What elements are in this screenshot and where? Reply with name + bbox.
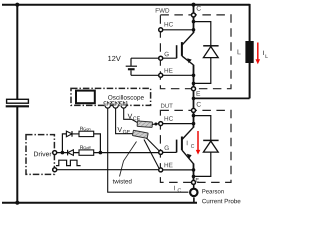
wire battery to HE FWD <box>131 74 159 76</box>
wire right bus upper <box>249 4 251 41</box>
FWD module box <box>160 15 231 89</box>
IGBT DUT <box>163 127 194 164</box>
current arrow IC DUT <box>196 131 201 155</box>
wire right bus lower <box>249 63 251 99</box>
junction top-center <box>191 3 195 7</box>
label HE DUT <box>165 163 173 167</box>
capacitor DC-link <box>6 99 29 106</box>
twisted probe VGE <box>132 130 148 138</box>
junction FWD HE tap <box>192 74 196 78</box>
battery 12V <box>126 58 137 75</box>
driver box <box>26 135 54 175</box>
wire FWD emitter chain <box>193 65 195 87</box>
label Driver <box>34 151 51 156</box>
label E FWD <box>197 91 201 96</box>
label G DUT <box>165 146 169 151</box>
wire Ch3 to VGE probe <box>116 108 134 134</box>
label HC DUT <box>165 116 173 121</box>
node G FWD <box>159 56 163 60</box>
wire VGE probe to HE <box>144 140 159 169</box>
node HC FWD <box>159 28 163 32</box>
junction gate branch left <box>61 151 65 155</box>
wire battery to G FWD <box>131 57 159 59</box>
connector bump Ch1 <box>121 105 126 108</box>
wire HE DUT to emitter <box>163 169 194 171</box>
label DUT <box>161 104 173 108</box>
label HC FWD <box>165 22 173 27</box>
wire Pearson to bottom bus <box>193 198 195 204</box>
wire Ch2 to Pearson <box>108 108 189 192</box>
junction FWD diode tap <box>192 20 196 24</box>
terminal driver gate <box>53 151 57 155</box>
node E FWD <box>192 87 196 91</box>
junction DUT HC tap <box>192 122 196 126</box>
label IC DUT <box>187 141 194 148</box>
wire top DC bus <box>2 4 250 6</box>
node HE DUT <box>159 168 163 172</box>
wire FWD collector segment <box>193 17 195 33</box>
node C DUT <box>192 108 196 112</box>
oscilloscope box <box>71 88 151 105</box>
wire driver gate output <box>57 152 159 154</box>
label C FWD <box>197 6 201 11</box>
wire left DC bus upper <box>16 5 18 100</box>
label 12V <box>108 56 121 61</box>
wire load return <box>194 97 250 99</box>
diode gate-off <box>68 150 74 156</box>
junction bottom-left <box>15 201 19 205</box>
label Ch2 <box>104 101 112 104</box>
node C FWD <box>192 13 196 17</box>
twisted probe VCE <box>137 121 152 127</box>
label Current Probe <box>202 199 240 204</box>
label VCE <box>128 114 140 120</box>
label Oscilloscope <box>108 95 144 101</box>
wire Ch1 to VCE probe <box>124 108 138 123</box>
wire DUT HC lead <box>161 123 194 125</box>
twisted pointer line <box>120 142 137 177</box>
label E DUT <box>196 178 199 182</box>
junction top-left <box>15 3 19 7</box>
connector bump Ch3 <box>113 105 118 108</box>
inductor L load <box>245 41 253 63</box>
wire Rgon to junction <box>94 134 101 153</box>
diode FWD antiparallel <box>194 22 219 84</box>
wire main vertical C-FWD top <box>193 5 195 14</box>
wire FWD HC lead <box>161 29 194 31</box>
pulse waveform <box>56 160 81 165</box>
junction DUT diode tap <box>192 114 196 118</box>
junction DUT diode return <box>192 175 196 179</box>
node G DUT <box>159 150 163 154</box>
label C DUT <box>197 102 201 107</box>
wire left DC bus lower <box>16 107 18 203</box>
wire bottom bus <box>2 202 197 204</box>
Pearson current probe <box>190 189 197 196</box>
node HC DUT <box>159 122 163 126</box>
label HE FWD <box>165 68 173 72</box>
oscilloscope screen <box>76 91 95 104</box>
label IL <box>263 51 267 58</box>
label G FWD <box>165 52 169 57</box>
diode DUT antiparallel <box>194 116 219 177</box>
wire HE FWD to emitter <box>163 74 194 76</box>
diode gate-on <box>66 131 79 137</box>
label twisted <box>113 179 132 184</box>
label L <box>238 49 241 54</box>
label Pearson <box>202 189 223 193</box>
label IC probe <box>174 186 181 192</box>
label Ch3 <box>111 101 119 104</box>
wire VCE probe to HC <box>152 123 159 126</box>
DUT module box <box>160 110 231 182</box>
wire E-DUT to Pearson <box>193 184 195 188</box>
terminal driver return <box>53 168 57 172</box>
label FWD <box>156 8 170 12</box>
junction FWD HC tap <box>192 28 196 32</box>
wire VGE probe to G <box>146 138 159 151</box>
wire Rgon branch <box>62 134 66 153</box>
wire DUT emitter chain <box>193 164 195 181</box>
junction load return <box>192 97 196 101</box>
wire DUT collector segment <box>193 112 195 127</box>
node E DUT <box>192 180 196 184</box>
label VGE <box>117 127 130 133</box>
junction DUT HE tap <box>192 168 196 172</box>
junction VCE probe <box>154 123 157 126</box>
wire driver return to HE <box>57 169 159 171</box>
label RGoff <box>80 146 90 150</box>
junction gate branch right <box>99 151 103 155</box>
resistor RGon <box>79 131 94 136</box>
label Ch1 <box>120 101 128 104</box>
label RGon <box>80 127 90 131</box>
current arrow IL <box>256 43 261 65</box>
wire mid link E to C <box>193 91 195 109</box>
junction FWD diode return <box>192 82 196 86</box>
connector bump Ch2 <box>105 105 110 108</box>
IGBT FWD <box>161 33 194 65</box>
node HE FWD <box>159 73 163 77</box>
resistor RGoff <box>79 150 94 155</box>
